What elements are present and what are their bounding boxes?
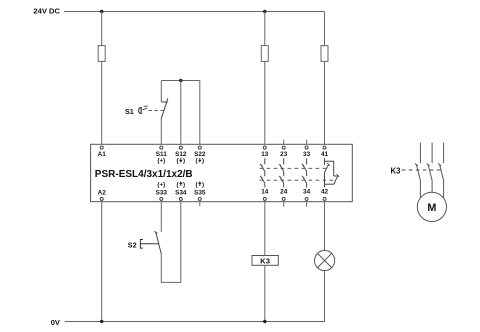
svg-text:42: 42: [321, 188, 329, 195]
wire S33 column upper: [160, 202, 162, 232]
svg-text:23: 23: [280, 151, 288, 158]
relay contact 13-14 (NO, two blades): [260, 158, 265, 187]
terminal 13: [263, 146, 266, 149]
svg-text:): ): [183, 158, 185, 165]
svg-text:S35: S35: [194, 189, 206, 196]
fuse F1 (A1 branch): [98, 46, 105, 62]
svg-text:): ): [202, 181, 204, 188]
svg-text:): ): [202, 158, 204, 165]
wire 13 upper segment: [264, 12, 266, 46]
junction dot A1 branch on 24V rail: [100, 10, 103, 13]
svg-text:24V DC: 24V DC: [33, 7, 60, 16]
terminal S12: [179, 146, 182, 149]
svg-text:14: 14: [261, 188, 269, 195]
wire S11-S12-S22 top link: [161, 80, 200, 82]
contactor coil K3: [252, 256, 278, 266]
wire S33 column lower + jog to S34: [161, 202, 181, 283]
dashed mechanical linkage row 1: [260, 167, 327, 169]
svg-text:S34: S34: [175, 189, 187, 196]
contactor main contact L3: [438, 143, 444, 199]
wire A1 lower segment: [101, 61, 103, 144]
S1 latch detent symbol: [143, 106, 148, 110]
terminal A1: [100, 146, 103, 149]
wire S12 column: [180, 81, 182, 145]
junction dot 13 branch on 24V rail: [263, 10, 266, 13]
contactor main contact L2: [427, 143, 433, 193]
terminal 41: [323, 146, 326, 149]
S2 actuator link: [140, 243, 159, 245]
S1 dashed actuation link: [149, 110, 164, 112]
wire 0V rail: [65, 321, 325, 323]
svg-text:33: 33: [303, 151, 311, 158]
indicator lamp H1: [315, 250, 335, 270]
stub wire above terminal 33: [306, 140, 308, 145]
svg-text:M: M: [427, 202, 436, 214]
terminal 24: [282, 197, 285, 200]
terminal 42: [323, 197, 326, 200]
stub wire below terminal 34: [306, 202, 308, 207]
S1 mushroom head actuator: [139, 107, 142, 114]
svg-text:K3: K3: [391, 166, 402, 175]
fuse F2 (13 branch): [261, 46, 268, 62]
terminal S11: [160, 146, 163, 149]
dashed mechanical linkage row 2: [260, 179, 336, 181]
wire 42 column lower: [324, 271, 326, 322]
svg-text:S1: S1: [125, 107, 134, 116]
svg-text:): ): [183, 181, 185, 188]
start button S2 blade hook: [155, 231, 158, 233]
svg-text:0V: 0V: [51, 318, 61, 327]
wire 13 lower segment: [264, 61, 266, 144]
wire S22 column: [199, 81, 201, 145]
terminal 34: [305, 197, 308, 200]
svg-text:(+): (+): [157, 158, 165, 165]
dashed K3 linkage: [402, 169, 443, 171]
wire 14 column upper: [264, 202, 266, 256]
emergency stop contact S1 (NC) seat tick: [161, 101, 168, 103]
emergency stop contact S1 blade: [161, 98, 168, 119]
relay contact 23-24 (NO, two blades): [279, 158, 283, 187]
terminal A2: [100, 197, 103, 200]
stub wire below terminal S35: [199, 202, 201, 207]
wire S11 column lower: [160, 119, 162, 144]
svg-text:24: 24: [280, 188, 288, 195]
svg-text:PSR-ESL4/3x1/1x2/B: PSR-ESL4/3x1/1x2/B: [95, 169, 193, 180]
svg-text:S33: S33: [156, 189, 168, 196]
start button S2 blade (NO): [156, 232, 162, 254]
wire 24V DC rail: [64, 11, 325, 13]
contactor main contact L1: [415, 143, 421, 198]
junction dot A2 on 0V rail: [100, 320, 103, 323]
stub wire below terminal 24: [283, 202, 285, 207]
fuse F3 (41 branch): [321, 46, 328, 62]
svg-text:S2: S2: [128, 241, 137, 250]
relay contact 33-34 (NO, two blades): [302, 158, 307, 187]
relay box PSR-ESL4: [91, 144, 353, 201]
terminal 33: [305, 146, 308, 149]
svg-text:A1: A1: [98, 151, 107, 158]
terminal S22: [198, 146, 201, 149]
svg-text:(+): (+): [157, 181, 165, 188]
svg-text:13: 13: [261, 151, 269, 158]
wire 14 column lower: [264, 265, 266, 321]
wire S11 column upper: [160, 81, 162, 103]
wire 42 column upper: [324, 202, 326, 251]
terminal S34: [179, 197, 182, 200]
relay contact 41-42 (NC, two blades with bypass bracket): [325, 158, 340, 187]
svg-text:K3: K3: [260, 256, 270, 265]
S2 push button actuator bracket: [140, 240, 143, 249]
junction dot S12 on top link: [179, 79, 182, 82]
stub wire above terminal 23: [283, 140, 285, 145]
terminal 14: [263, 197, 266, 200]
junction dot K3 on 0V rail: [263, 320, 266, 323]
wire 41 upper segment: [324, 12, 326, 46]
terminal 23: [282, 146, 285, 149]
svg-text:A2: A2: [98, 189, 107, 196]
terminal S33: [160, 197, 163, 200]
svg-text:34: 34: [303, 188, 311, 195]
wire A1 upper segment: [101, 12, 103, 46]
wire 41 lower segment: [324, 61, 326, 144]
svg-text:41: 41: [321, 151, 329, 158]
motor M: [417, 192, 446, 221]
wire A2 column: [101, 202, 103, 322]
terminal S35: [198, 197, 201, 200]
